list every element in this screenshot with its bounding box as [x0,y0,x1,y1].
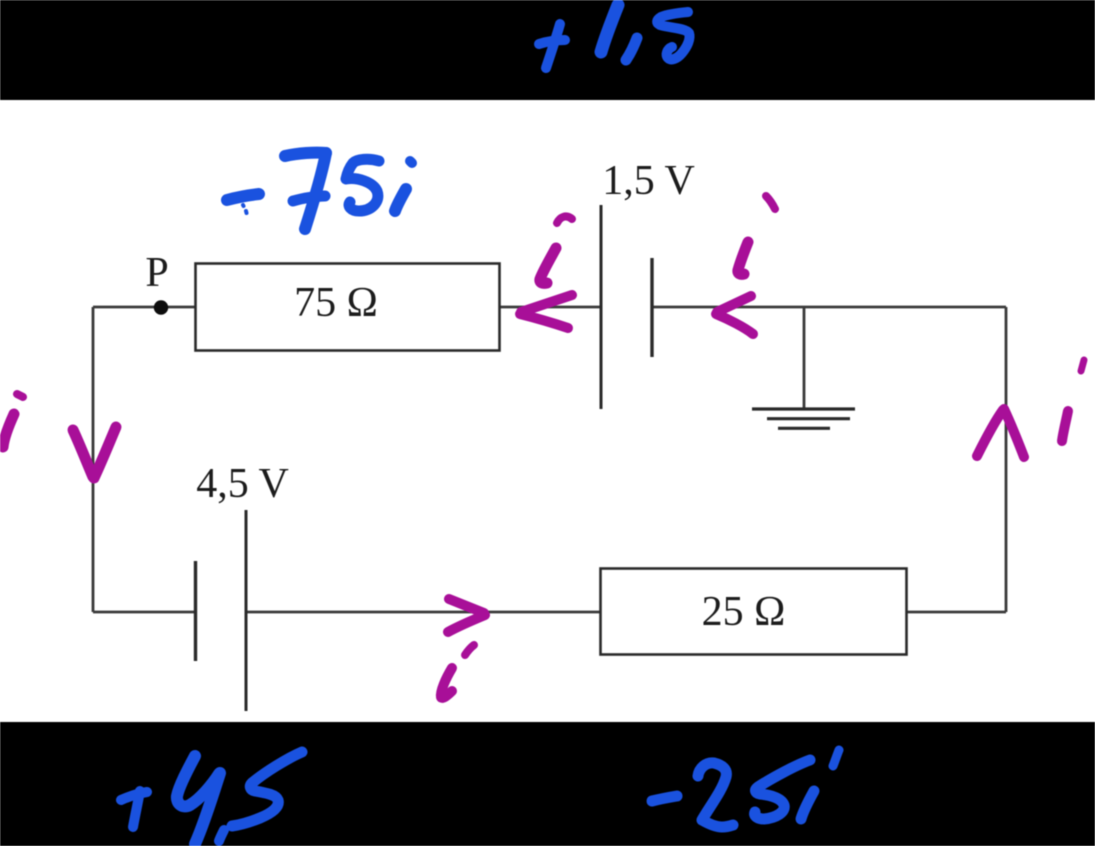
annotation blue +1,5 digit 5 [657,12,689,59]
annotation blue -25i digit 5 [755,760,810,819]
annotation blue -25i apostrophe [833,750,839,766]
wire top-left horizontal (node P to resistor) [93,306,195,309]
annotation blue -25i minus [652,796,677,801]
resistor R 75ohm box [196,264,500,351]
svg-text:1,5 V: 1,5 V [602,158,695,204]
annotation blue +4,5 comma [219,830,224,841]
svg-text:P: P [145,250,168,296]
annotation magenta i body (right of V1) [738,242,748,274]
annotation magenta arrow < (between R75 and V1) [520,295,572,328]
annotation blue -75i minus [227,194,259,200]
bottom letterbox bar [0,722,1095,846]
battery V2 4.5V short plate [194,561,197,661]
annotation blue +4,5 digit 4 [177,756,219,806]
annotation blue +1,5 (top bar) plus sign [539,40,565,44]
wire right vertical [1005,307,1008,612]
annotation blue -75i digit 7 [285,153,326,156]
annotation blue -75i dots under minus [241,205,246,206]
annotation magenta arrow ^ up (right wire) [977,409,1024,457]
battery V1 1.5V short plate [650,258,653,357]
annotation magenta i dot (left wire) [17,394,23,397]
annotation magenta arrow < (right of V1) [716,296,753,334]
annotation magenta apostrophe (right wire) [1081,360,1084,371]
svg-text:75 Ω: 75 Ω [294,280,378,326]
svg-text:25 Ω: 25 Ω [702,589,786,635]
ground stem [803,307,806,408]
annotation magenta backtick (right of V1) [766,196,775,209]
wire bottom-left (corner to battery4.5) [93,611,196,614]
wire bottom-right (resistor25 to right corner) [907,611,1006,614]
annotation magenta i body (between R75 and V1) [540,248,556,283]
wire bottom middle (battery4.5 to resistor25) [246,611,600,614]
battery V2 4.5V long plate [245,510,248,711]
svg-text:4,5 V: 4,5 V [196,461,289,507]
wire left vertical [92,307,95,612]
annotation magenta apostrophe (bottom wire) [465,645,474,655]
annotation blue +1,5 digit 1 [601,5,618,52]
annotation blue +1,5 comma [626,38,637,60]
annotation magenta arrow v down (left wire) [73,427,116,478]
wire resistor75 to battery1.5 [500,306,600,309]
annotation blue -25i digit 2 [698,763,733,827]
annotation blue +4,5 plus [121,792,147,800]
annotation blue -75i letter i body [395,189,406,211]
annotation blue -75i digit 5 [346,159,379,211]
annotation blue +4,5 digit 5 [232,752,302,826]
annotation magenta arrow > (bottom wire) [448,599,485,632]
battery V1 1.5V long plate [600,205,603,409]
resistor R 25ohm box [601,569,907,655]
top letterbox bar [0,0,1095,100]
annotation magenta i body (bottom wire) [441,668,452,698]
ground symbol bars [752,409,855,428]
annotation magenta i body (right wire) [1062,411,1068,441]
annotation magenta i arrow left (between R75 and V1) hat [557,216,572,223]
annotation blue -25i letter i [801,791,814,819]
wire battery1.5 to right corner [652,306,1006,309]
annotation magenta i body (left wire) [3,414,14,447]
annotation blue -75i letter i dot [410,161,412,163]
node P dot [154,300,168,314]
